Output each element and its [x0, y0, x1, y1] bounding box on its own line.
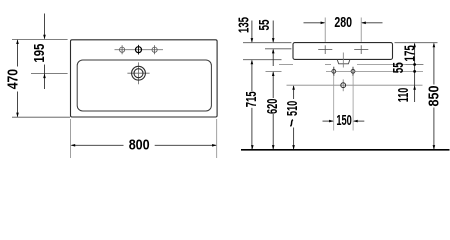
- dimension 470 arrowheads: [16, 39, 19, 44]
- svg-text:850: 850: [427, 86, 443, 107]
- slab bottom reference line left: [243, 59, 282, 61]
- dimension 850 arrow down at floor: [433, 145, 436, 150]
- dimension 800 arrowheads: [71, 144, 76, 147]
- dimension 135/715 line upper: [251, 21, 253, 42]
- siphon outlet vertical tick: [342, 79, 344, 91]
- dimension 195 arrow up: [43, 74, 46, 79]
- svg-text:280: 280: [334, 15, 352, 31]
- dimension 715 line: [251, 61, 253, 150]
- dimension 510 approx tilde: [290, 120, 293, 127]
- fixing hole extension line right (to 150 dim): [352, 76, 354, 131]
- dimension 195 line upper: [44, 14, 46, 39]
- basin inner bowl (plan): [77, 60, 211, 111]
- floor line: [241, 149, 450, 151]
- dimension 510 line: [293, 86, 295, 149]
- siphon outlet circle: [341, 83, 346, 88]
- dimension 150 line left with arrow: [323, 120, 333, 122]
- drain centerline vertical: [342, 53, 344, 68]
- overflow level dash line: [279, 64, 423, 66]
- dimension 510 arrow up: [292, 85, 295, 90]
- svg-text:55: 55: [257, 20, 273, 31]
- svg-text:195: 195: [32, 44, 48, 63]
- basin outer rim (plan): [71, 40, 218, 117]
- rim bottom reference line (left): [12, 116, 70, 118]
- dimension 715 arrow down at floor: [251, 145, 254, 150]
- dimension 620 line: [272, 72, 274, 149]
- rim reference line right: [395, 42, 438, 44]
- dimension 280 line left with arrow: [304, 22, 325, 24]
- dimension 175 arrow up at rim: [413, 43, 416, 48]
- faucet hole middle, punched (plan): [136, 45, 142, 55]
- dimension 800 extension line left: [70, 119, 72, 158]
- dimension 195 arrow down: [43, 35, 46, 40]
- rim top reference line (left): [12, 38, 68, 40]
- svg-text:715: 715: [244, 91, 260, 107]
- svg-text:620: 620: [265, 99, 281, 115]
- dimension 175/55/110 main vertical line: [414, 44, 416, 103]
- svg-text:135: 135: [237, 17, 253, 33]
- dimension 850 arrow up at rim: [433, 43, 436, 48]
- rim reference line left: [243, 42, 291, 44]
- svg-text:175: 175: [403, 45, 419, 61]
- dimension 55 arrow down: [272, 38, 275, 43]
- dimension 55/620 line upper: [272, 21, 274, 42]
- dimension 280 line right with arrow: [362, 22, 383, 24]
- svg-text:470: 470: [5, 69, 21, 89]
- drain funnel below slab: [337, 60, 350, 64]
- tap hole cross left (front): [318, 45, 332, 54]
- fixing holes centerline: [326, 70, 423, 72]
- fixing hole level stub left: [266, 70, 282, 72]
- dimension 715 arrow up: [251, 60, 254, 65]
- basin slab (front view): [293, 43, 393, 60]
- siphon centerline horizontal: [287, 84, 423, 86]
- faucet hole left (plan): [120, 45, 125, 54]
- svg-text:510: 510: [285, 101, 301, 116]
- dimension 510 arrow down at floor: [292, 145, 295, 150]
- fixing hole left (front): [332, 67, 336, 76]
- tap hole level reference line left: [265, 48, 291, 50]
- dimension 620 arrow down at floor: [272, 145, 275, 150]
- svg-text:800: 800: [129, 137, 150, 153]
- dimension 175 dot: [413, 63, 416, 66]
- dimension 470 line: [17, 40, 19, 116]
- dimension 55 arrow up: [272, 49, 275, 54]
- tap hole crosshair vertical (plan): [138, 62, 140, 84]
- dimension 620 arrow up: [272, 71, 275, 76]
- dimension 800 line: [71, 144, 216, 146]
- dimension 850 line: [433, 44, 435, 150]
- dimension 135 arrow down: [251, 38, 254, 43]
- dimension 280 extension line right: [360, 18, 362, 42]
- svg-text:110: 110: [396, 88, 412, 103]
- level stub 175 dots line upper: [406, 64, 424, 66]
- tap hole outer circle (plan): [132, 66, 146, 80]
- dimension 55 lower segment: [272, 50, 274, 66]
- tap hole crosshair horizontal (plan): [127, 72, 149, 74]
- dimension 800 extension line right: [216, 119, 218, 158]
- dimension 280 extension line left: [324, 18, 326, 42]
- tap hole cross right (front): [354, 45, 368, 54]
- svg-text:150: 150: [336, 113, 352, 129]
- dimension 110 arrow up at siphon line: [413, 85, 416, 90]
- tap hole reference line (left): [31, 73, 68, 75]
- fixing hole right (front): [351, 67, 355, 76]
- centerline through faucet holes (plan): [115, 49, 164, 51]
- dimension 55 dot: [413, 70, 416, 73]
- faucet hole right (plan): [152, 45, 157, 54]
- tap hole inner circle (plan): [134, 69, 143, 78]
- dimension 195 line lower: [44, 65, 46, 90]
- dimension 150 line right with arrow: [354, 120, 364, 122]
- fixing hole extension line left (to 150 dim): [333, 76, 335, 131]
- svg-text:55: 55: [391, 62, 407, 73]
